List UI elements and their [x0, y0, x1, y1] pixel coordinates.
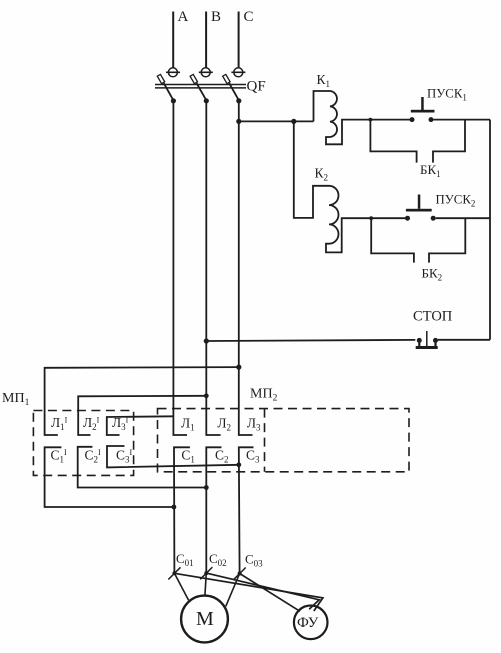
- aux contact BK2: [371, 218, 465, 262]
- wire H-B from B to column c2: [78, 396, 206, 435]
- wire phase C column: [239, 101, 253, 435]
- aux contact BK1: [370, 120, 465, 163]
- wire phase C lead-in: [238, 12, 240, 68]
- pushbutton PUSK1: [410, 97, 435, 122]
- dashed box MP1: [33, 411, 133, 476]
- contact C3' of MP1 with output wire to C column: [107, 446, 239, 467]
- dashed divider in MP2: [264, 409, 266, 472]
- wire phase B lead-in: [205, 12, 207, 68]
- contact C3 of MP2 column to motor: [239, 447, 254, 573]
- wire K2 branch: [294, 121, 329, 217]
- wire STOP row: [206, 340, 415, 341]
- wire C01 to FU: [174, 573, 323, 611]
- breaker QF pole B blade: [190, 74, 206, 100]
- wire phase A lead-in: [172, 12, 174, 68]
- pushbutton PUSK2: [405, 195, 436, 221]
- phase equalizer FU: [294, 606, 328, 640]
- contact C2' of MP1 with output wire H3 to B column: [78, 447, 207, 488]
- wire STOP to right bus: [438, 339, 490, 341]
- junction dot pole B: [204, 98, 209, 103]
- wire C03 to FU: [240, 574, 300, 612]
- breaker QF pole C blade: [223, 74, 239, 100]
- wire C01 to motor M: [174, 573, 188, 600]
- breaker QF pole A terminal: [166, 68, 180, 77]
- pushbutton STOP (NC): [416, 331, 438, 349]
- wire C03 to motor M: [226, 574, 240, 607]
- wire right bus: [489, 120, 491, 340]
- svg-text:A: A: [178, 9, 189, 25]
- breaker QF pole B terminal: [199, 68, 213, 77]
- wire control feed to K1: [239, 120, 314, 122]
- wire C02 to motor M: [205, 573, 206, 596]
- wire C02 to FU: [206, 573, 319, 609]
- motor M: [181, 596, 228, 643]
- terminal C02 slash and dot: [200, 567, 212, 579]
- junction dot pole A: [171, 98, 176, 103]
- junction dot control tap on C: [236, 119, 241, 124]
- wire PUSK1 to right bus: [433, 119, 490, 121]
- contact C2 of MP2 column to motor: [206, 447, 221, 573]
- svg-text:СТОП: СТОП: [413, 309, 453, 325]
- svg-text:ПУСК2: ПУСК2: [436, 193, 476, 209]
- wire phase A column: [173, 101, 187, 435]
- svg-text:ФУ: ФУ: [297, 615, 319, 631]
- svg-text:ПУСК1: ПУСК1: [427, 87, 467, 103]
- contact C1' of MP1 with output wire H4 to A column: [45, 447, 174, 507]
- dashed box MP2: [158, 409, 410, 472]
- junction dot H3 on c5: [204, 485, 209, 490]
- svg-text:М: М: [196, 608, 214, 630]
- breaker QF linkage bar: [155, 85, 246, 88]
- svg-text:C: C: [244, 9, 254, 25]
- junction dot H-B on B: [204, 393, 209, 398]
- junction dot pole C: [236, 98, 241, 103]
- terminal C03 slash and dot: [234, 568, 246, 580]
- wire PUSK2 to right bus: [436, 217, 490, 219]
- wire H-conn from A to column c3: [107, 416, 174, 435]
- wire H1 from C to column c1: [45, 367, 239, 435]
- junction dot BK1 left riser: [369, 118, 373, 122]
- junction dot H1 on C: [236, 365, 241, 370]
- wire phase B column: [206, 101, 220, 435]
- contactor coil K2: [326, 186, 405, 253]
- junction dot STOP tap on B: [204, 338, 209, 343]
- junction dot BK2 left riser: [369, 216, 373, 220]
- contact C1 of MP2 column to motor: [174, 447, 190, 573]
- junction dot K2 branch: [291, 119, 296, 124]
- svg-text:B: B: [211, 9, 221, 25]
- terminal C01 slash and dot: [168, 567, 180, 579]
- junction dot H4 on c4: [172, 505, 177, 510]
- svg-text:QF: QF: [247, 79, 266, 95]
- contactor coil K1: [314, 91, 410, 144]
- junction dot C3' wire on c6: [236, 462, 241, 467]
- breaker QF pole A blade: [157, 74, 173, 100]
- breaker QF pole C terminal: [231, 68, 245, 77]
